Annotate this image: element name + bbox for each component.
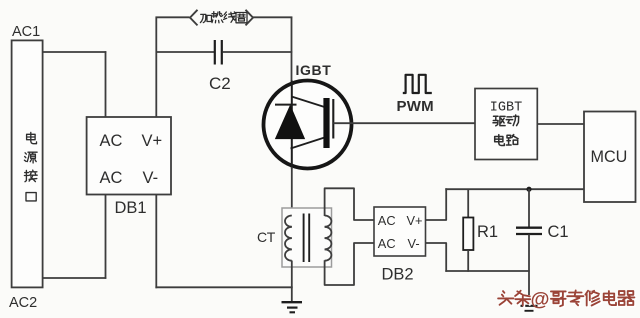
svg-text:C1: C1 — [548, 223, 569, 241]
node AC1 label — [12, 24, 40, 40]
ground symbol — [282, 302, 303, 312]
svg-text:CT: CT — [257, 229, 276, 245]
power interface box (dianyuan jiekou) — [12, 40, 43, 287]
CT label — [257, 229, 276, 245]
capacitor C1 label — [548, 223, 569, 241]
resistor R1 label — [477, 223, 498, 241]
bridge rectifier DB1 box — [87, 117, 171, 195]
wire DB2 V- output — [426, 243, 446, 272]
wire DB1 top-right riser to coil node — [155, 17, 157, 118]
drive box text 驱动 — [493, 115, 519, 126]
DB1 pin label AC (top) — [100, 132, 123, 150]
IGBT internal collector-emitter line — [291, 81, 293, 169]
wire bottom rail (V-) — [445, 270, 529, 272]
heating coil label bracket right — [246, 10, 254, 26]
wire DB2 V+ output — [426, 188, 446, 220]
wire CT secondary bottom to DB2 AC2 — [325, 243, 375, 285]
heating coil top wire (left segment) — [156, 16, 190, 18]
svg-text:IGBT: IGBT — [490, 101, 522, 116]
svg-text:DB2: DB2 — [382, 266, 414, 284]
PWM label — [397, 98, 434, 115]
svg-text:AC2: AC2 — [9, 295, 37, 311]
capacitor C1 plates — [516, 228, 542, 234]
wire R1 top — [467, 189, 469, 218]
svg-text:AC: AC — [100, 132, 123, 150]
svg-text:AC: AC — [378, 213, 396, 228]
IGBT transistor circle — [264, 81, 352, 169]
IGBT emitter slant — [291, 138, 325, 149]
heating coil label 加热线圈 — [200, 12, 247, 23]
IGBT gate plate bar — [323, 98, 329, 148]
wire DB1 V- output down — [155, 194, 292, 288]
wire C1 bottom to ground — [528, 235, 530, 296]
DB2 pin label V- — [408, 236, 420, 251]
DB1 pin label AC (bottom) — [100, 169, 123, 187]
wire C2 branch left — [156, 51, 215, 53]
IGBT collector slant — [292, 97, 325, 108]
wire CT bottom to ground — [291, 261, 293, 303]
svg-text:V-: V- — [143, 169, 159, 187]
heating coil top wire (right segment) — [253, 16, 293, 18]
DB2 pin label AC (top) — [378, 213, 396, 228]
wire coil node down to IGBT collector — [291, 17, 293, 83]
svg-text:IGBT: IGBT — [296, 62, 332, 78]
wire AC1 to DB1 top-left — [43, 51, 107, 117]
bridge rectifier DB2 box — [374, 207, 426, 256]
CT core lines — [304, 214, 310, 263]
wire C2 branch right — [223, 51, 293, 53]
svg-text:@: @ — [530, 288, 549, 310]
svg-text:DB1: DB1 — [115, 199, 147, 217]
heating coil label bracket left — [190, 10, 198, 26]
MCU box — [584, 112, 636, 203]
wire C1 top — [528, 189, 530, 227]
wire AC2 to DB1 bottom-left — [43, 194, 107, 279]
DB2 pin label AC (bottom) — [378, 236, 396, 251]
svg-text:R1: R1 — [477, 223, 498, 241]
DB2 reference label — [382, 266, 414, 284]
capacitor C2 plates — [215, 40, 222, 65]
svg-text:PWM: PWM — [397, 98, 434, 115]
DB1 pin label V- — [143, 169, 159, 187]
svg-text:AC1: AC1 — [12, 24, 40, 40]
svg-text:AC: AC — [100, 169, 123, 187]
resistor R1 body — [463, 218, 473, 251]
IGBT drive circuit box — [475, 89, 537, 160]
IGBT body diode triangle — [276, 106, 305, 139]
power interface box vertical label 电源接口 — [24, 132, 37, 201]
CT secondary winding (right) — [325, 216, 332, 261]
ground tick below C1 — [521, 306, 538, 311]
wire drive circuit to MCU — [537, 123, 584, 125]
watermark 头条@哥专修电器 — [498, 288, 636, 311]
drive box text 电路 — [495, 135, 518, 146]
PWM square-wave icon — [403, 75, 432, 93]
wire top rail (V+ to MCU) — [445, 188, 584, 190]
svg-text:V-: V- — [408, 236, 420, 251]
DB1 reference label — [115, 199, 147, 217]
DB2 pin label V+ — [407, 213, 423, 228]
wire CT secondary top to DB2 AC1 — [325, 188, 375, 220]
wire R1 bottom — [467, 250, 469, 272]
wire IGBT gate to drive circuit — [333, 122, 475, 124]
svg-text:MCU: MCU — [591, 148, 628, 166]
DB1 pin label V+ — [142, 132, 163, 150]
capacitor C2 label — [209, 74, 231, 93]
wire IGBT emitter down to CT — [291, 167, 293, 216]
current transformer CT outer box — [282, 208, 332, 267]
MCU label — [591, 148, 628, 166]
svg-text:V+: V+ — [407, 213, 423, 228]
drive box text IGBT — [490, 101, 522, 116]
CT primary winding (left) — [285, 216, 292, 261]
IGBT body diode cathode bar — [275, 104, 297, 106]
svg-text:C2: C2 — [209, 74, 231, 93]
node AC2 label — [9, 295, 37, 311]
IGBT reference label — [296, 62, 332, 78]
svg-text:V+: V+ — [142, 132, 163, 150]
svg-text:AC: AC — [378, 236, 396, 251]
IGBT gate line — [332, 99, 334, 139]
junction dot at C1 top — [526, 187, 531, 192]
